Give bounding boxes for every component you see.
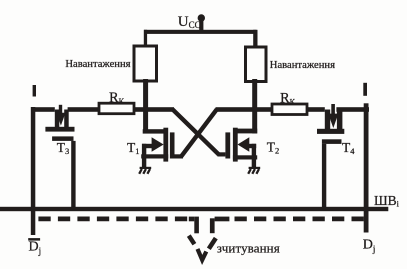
transistor T4 channel bar: [317, 129, 344, 134]
svg-text:RК: RК: [280, 90, 296, 106]
svg-text:Навантаження: Навантаження: [270, 60, 335, 71]
svg-text:RК: RК: [109, 90, 125, 106]
transistor T2 gate stub: [217, 152, 225, 156]
svg-text:Т1: Т1: [127, 140, 140, 156]
transistor T2 drain wire from node Q-bar: [233, 129, 257, 134]
svg-text:ШВі: ШВі: [374, 193, 400, 209]
read line left corner dash down: [189, 217, 195, 222]
resistor load right (Навантаження): [246, 47, 267, 82]
resistor RK right: [272, 104, 307, 115]
transistor T4 substrate arrow stub: [331, 104, 335, 115]
svg-text:Навантаження: Навантаження: [65, 59, 130, 70]
svg-text:Т4: Т4: [342, 140, 355, 156]
bit line Dj right vertical: [364, 103, 369, 232]
transistor T1 channel bar: [163, 128, 168, 162]
transistor T4 left leg: [325, 110, 330, 130]
transistor T2 source bar: [233, 155, 257, 159]
read line right corner dash down: [210, 218, 215, 233]
read line right diagonal dash: [209, 238, 216, 249]
power stub Ucc: [199, 17, 203, 33]
ground under T1: [139, 167, 151, 174]
node Q vertical wire (left load to T1 drain): [143, 79, 148, 134]
transistor T4 right leg: [337, 110, 343, 130]
transistor T3 right leg: [64, 110, 69, 129]
transistor T4 gate wire to word line: [322, 144, 326, 211]
transistor T1 substrate arrow feed: [142, 144, 152, 148]
power terminal Ucc dot: [198, 14, 205, 21]
wire bend to right load: [253, 30, 257, 49]
bit line D-bar-j left vertical: [31, 107, 36, 235]
bit line right continuation tick: [363, 83, 367, 96]
svg-text:Dj: Dj: [29, 239, 42, 256]
label D-bar-j left: [28, 238, 41, 256]
transistor T1 gate bar: [170, 132, 175, 158]
bit line left continuation tick: [33, 85, 36, 97]
wire T4 to right corner: [336, 107, 369, 112]
transistor T3 gate bar: [52, 136, 73, 141]
transistor T4 substrate arrow: [328, 114, 338, 128]
transistor T4 gate bar: [322, 139, 342, 144]
transistor T2 gate bar: [225, 132, 230, 158]
transistor T1 substrate arrow: [152, 137, 164, 151]
transistor T2 substrate arrow feed: [249, 144, 256, 148]
read line dashed right segment: [235, 217, 366, 222]
wire T3 to node Q and diagonal start: [68, 107, 174, 112]
svg-text:UCC: UCC: [178, 14, 201, 30]
svg-text:Dj: Dj: [363, 237, 376, 254]
transistor T3 substrate arrow: [56, 113, 65, 126]
svg-text:Т2: Т2: [267, 139, 280, 155]
transistor T3 substrate arrow stub: [59, 105, 62, 115]
top rail wire: [144, 30, 257, 34]
node Q-bar vertical wire (right load to T2 drain): [252, 79, 257, 134]
read arrowhead: [198, 249, 207, 260]
transistor T3 channel bar: [45, 127, 74, 132]
wire bend to left load: [144, 30, 147, 48]
transistor T2 substrate arrow: [238, 137, 250, 151]
transistor T1 drain wire from node Q: [143, 129, 167, 133]
transistor T2 channel bar: [233, 128, 238, 162]
ground under T2: [248, 167, 260, 174]
wire left row (Dj corner to T3): [32, 107, 55, 112]
resistor RK left: [99, 103, 134, 114]
transistor T3 gate wire to word line: [71, 141, 75, 211]
resistor load left (Навантаження): [134, 46, 157, 81]
cross-coupling wire node Q to T2 gate: [173, 109, 219, 154]
transistor T3 left leg: [55, 110, 60, 129]
read line dashed left segment: [38, 217, 189, 222]
transistor T1 gate stub: [175, 154, 184, 158]
word line ShV: [0, 207, 388, 211]
transistor T1 source bar: [141, 154, 168, 158]
wire diagonal start to node Q-bar, to T4: [216, 107, 325, 112]
transistor T2 source vertical to ground: [252, 144, 256, 169]
transistor T1 source vertical to ground: [142, 144, 146, 169]
cross-coupling wire node Q-bar to T1 gate: [181, 109, 217, 156]
svg-text:зчитування: зчитування: [217, 241, 280, 256]
svg-text:Т3: Т3: [57, 140, 70, 156]
read line left diagonal dash: [189, 236, 195, 245]
